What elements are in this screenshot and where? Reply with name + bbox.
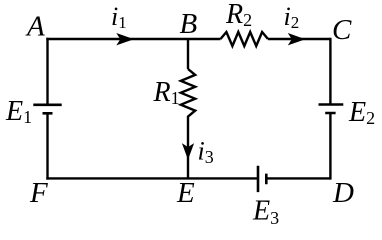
wire E-F (bottom left) xyxy=(46,177,188,179)
battery E2 xyxy=(319,105,344,114)
svg-text:E1: E1 xyxy=(5,96,32,127)
wire R2 to C xyxy=(268,38,330,40)
svg-text:R1: R1 xyxy=(153,77,180,108)
svg-text:D: D xyxy=(332,177,354,209)
current arrow i1 xyxy=(116,33,134,45)
wire E3 to E xyxy=(188,177,258,179)
resistor R2 xyxy=(221,32,269,46)
svg-text:E3: E3 xyxy=(252,196,279,229)
svg-text:i1: i1 xyxy=(111,2,127,32)
wire C-D (right side) xyxy=(329,38,331,180)
svg-text:E: E xyxy=(176,177,195,209)
svg-text:i3: i3 xyxy=(198,137,214,168)
wire B to R2 entry xyxy=(188,38,221,40)
svg-text:E2: E2 xyxy=(348,97,375,128)
wire A-B (top left horizontal) xyxy=(46,38,188,40)
wire E1 up to A xyxy=(46,38,48,105)
svg-text:C: C xyxy=(332,14,352,46)
svg-text:R2: R2 xyxy=(225,0,252,30)
wire F up to E1 xyxy=(46,113,48,179)
wire R1 down to E xyxy=(187,120,189,178)
wire B down to R1 xyxy=(187,39,189,69)
svg-text:i2: i2 xyxy=(284,2,300,32)
battery E3 xyxy=(258,166,266,192)
current arrow i3 xyxy=(182,143,194,160)
wire D-E (bottom right) xyxy=(266,177,330,179)
svg-text:B: B xyxy=(180,8,198,40)
current arrow i2 xyxy=(288,33,306,45)
svg-text:F: F xyxy=(29,177,48,209)
battery E1 xyxy=(33,105,61,114)
resistor R1 xyxy=(181,69,195,120)
svg-text:A: A xyxy=(25,11,45,43)
